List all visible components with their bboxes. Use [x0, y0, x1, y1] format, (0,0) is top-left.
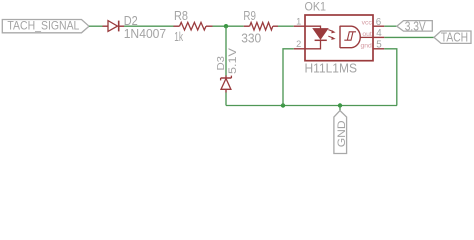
svg-text:H11L1MS: H11L1MS [305, 62, 358, 76]
pin name out [362, 31, 372, 38]
label D3 (rotated) [215, 56, 227, 71]
wire junction to zener D3 [225, 26, 227, 76]
svg-text:OK1: OK1 [305, 0, 327, 14]
junction node GND on rail [338, 103, 342, 107]
value 330 [241, 32, 261, 46]
junction node pin2 column on rail [281, 103, 285, 107]
supply flag 3.3V [397, 19, 433, 33]
pin name vcc [362, 20, 373, 27]
pin number 4 [376, 28, 382, 39]
diode D2 [103, 21, 125, 32]
OK1 internal LED cathode bar [315, 39, 327, 41]
svg-text:1N4007: 1N4007 [124, 27, 167, 41]
value 1N4007 [124, 27, 167, 41]
svg-text:4: 4 [376, 28, 382, 39]
svg-text:330: 330 [241, 32, 261, 46]
OK1 pin 2 stub [294, 48, 305, 50]
zener diode D3 [221, 76, 232, 93]
svg-text:vcc: vcc [362, 20, 373, 27]
OK1 light arrow 1 [328, 30, 335, 34]
pin number 6 [376, 17, 382, 28]
resistor R8 [174, 22, 213, 30]
svg-text:1k: 1k [174, 30, 183, 44]
wire TACH_SIGNAL to D2 [89, 25, 103, 27]
label R9 [243, 9, 256, 23]
OK1 schmitt trigger detector [340, 26, 360, 48]
value 5.1V (rotated) [227, 47, 239, 74]
OK1 pin 5 stub [373, 48, 384, 50]
wire pin2 to bottom rail [283, 49, 294, 106]
wire D3 to bottom rail [225, 93, 227, 106]
pin name gnd [360, 42, 372, 49]
OK1 pin 4 stub [373, 36, 384, 38]
label OK1 [305, 0, 327, 14]
svg-text:TACH: TACH [441, 30, 468, 44]
junction node at R8/R9/D3 [224, 24, 228, 28]
svg-text:R9: R9 [243, 9, 256, 23]
wire pin4 to TACH [384, 36, 434, 38]
schmitt hysteresis glyph [344, 32, 356, 40]
svg-text:TACH_SIGNAL: TACH_SIGNAL [7, 19, 79, 33]
OK1 internal LED anode lead [305, 26, 321, 29]
OK1 pin 6 stub [373, 25, 384, 27]
wire pin5 to bottom rail [384, 49, 397, 106]
net flag TACH_SIGNAL [2, 19, 89, 33]
svg-text:6: 6 [376, 17, 382, 28]
value 1k [174, 30, 183, 44]
label R8 [174, 9, 188, 23]
net flag TACH [434, 30, 471, 44]
bottom ground rail wire [226, 105, 397, 107]
wire rail to GND flag [339, 106, 341, 111]
wire R9 to OK1 pin1 [278, 25, 294, 27]
svg-text:3.3V: 3.3V [405, 19, 427, 33]
OK1 internal LED triangle [313, 29, 328, 40]
OK1 light arrow 2 [328, 36, 335, 40]
svg-text:2: 2 [296, 39, 301, 49]
opto-coupler OK1 box [305, 15, 373, 61]
resistor R9 [244, 22, 278, 30]
ground flag GND [334, 111, 348, 154]
svg-text:1: 1 [296, 17, 301, 27]
pin number 2 [296, 39, 301, 49]
svg-text:D3: D3 [215, 56, 227, 71]
svg-text:GND: GND [336, 120, 348, 147]
value H11L1MS [305, 62, 358, 76]
wire pin6 to 3.3V [384, 25, 397, 27]
OK1 internal out lead [360, 36, 373, 38]
OK1 pin 1 stub [294, 25, 305, 27]
label D2 [124, 14, 138, 28]
pin number 1 [296, 17, 301, 27]
svg-text:5: 5 [376, 40, 382, 51]
svg-text:5.1V: 5.1V [227, 47, 239, 74]
pin number 5 [376, 40, 382, 51]
wire D2 to R8 [124, 25, 174, 27]
svg-text:R8: R8 [174, 9, 188, 23]
OK1 internal LED cathode lead [305, 40, 321, 49]
svg-text:gnd: gnd [360, 42, 372, 49]
wire R8 to R9 [213, 25, 244, 27]
